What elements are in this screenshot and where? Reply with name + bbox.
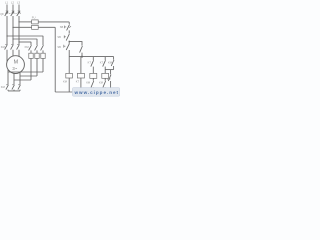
contactor KM3 star contact 2 xyxy=(12,85,15,90)
button SB3 xyxy=(57,44,69,50)
svg-text:L3: L3 xyxy=(17,0,20,4)
breaker QF pole 1 xyxy=(5,11,9,16)
wire control rail B xyxy=(38,26,55,28)
coil KT xyxy=(77,73,84,92)
coil KMD xyxy=(102,73,109,92)
svg-text:KM: KM xyxy=(86,81,90,85)
wire star bar xyxy=(8,90,20,91)
contactor KM2 delta contact 1 xyxy=(29,42,32,53)
wire delta branch 3 xyxy=(19,41,31,43)
svg-text:SB: SB xyxy=(60,25,64,29)
wire L1 drop xyxy=(6,5,8,12)
contactor KM3 star contact 1 xyxy=(6,85,8,90)
junction dot tap A xyxy=(18,21,19,22)
thermal relay FR heater 2 xyxy=(35,53,39,76)
svg-text:SB: SB xyxy=(57,35,61,39)
wire return drop xyxy=(54,27,56,92)
wire phase2 vertical xyxy=(12,16,14,44)
wire delta return 2 xyxy=(20,75,37,77)
wire segment SB3-bus xyxy=(68,50,70,73)
wire control rail A xyxy=(38,21,69,23)
contactor KM main contact 1 xyxy=(5,44,8,49)
contact KT branch4 xyxy=(100,57,106,74)
wire bottom return rail xyxy=(55,91,110,93)
wire L3 drop xyxy=(18,5,20,12)
coil KM xyxy=(66,73,73,92)
svg-text:KT: KT xyxy=(76,79,80,83)
button SB1 stop xyxy=(60,24,71,30)
svg-text:KT: KT xyxy=(88,61,92,65)
coil KMY xyxy=(90,73,97,92)
wire control bus xyxy=(69,56,113,58)
wire motor lead 3 xyxy=(18,50,20,57)
contactor KM main contact 2 xyxy=(11,44,14,49)
wire L2 drop xyxy=(12,5,14,12)
wire motor lead 2 xyxy=(12,50,14,57)
contactor KM3 star contact 3 xyxy=(18,85,21,90)
watermark www.cippe.net xyxy=(72,88,119,97)
wire control main drop xyxy=(68,22,70,24)
svg-text:KT: KT xyxy=(100,61,104,65)
junction dot branch node xyxy=(69,41,70,42)
svg-text:3~: 3~ xyxy=(12,66,17,71)
breaker QF pole 3 xyxy=(17,11,21,16)
svg-text:QF: QF xyxy=(0,12,4,16)
svg-text:KM: KM xyxy=(63,79,67,83)
contactor KM2 delta contact 3 xyxy=(41,36,44,53)
fuse FU2 xyxy=(32,25,39,29)
breaker QF mechanical link xyxy=(5,13,21,15)
svg-text:KM: KM xyxy=(99,81,103,85)
button SB2 start xyxy=(57,34,69,41)
junction dot tap B xyxy=(12,27,13,28)
svg-text:SB: SB xyxy=(57,45,61,49)
wire branch5 to coil4 xyxy=(105,69,113,71)
breaker QF pole 2 xyxy=(11,11,15,16)
svg-text:M: M xyxy=(14,59,19,65)
junction dot delta3 xyxy=(18,41,19,42)
junction dot selfhold-bus xyxy=(81,56,83,58)
wire segment SB2-node xyxy=(68,41,70,44)
fuse FU1 xyxy=(32,20,39,24)
wire motor bottom lead 1 xyxy=(7,69,9,84)
wire motor lead 1 xyxy=(6,50,8,63)
junction dot delta1 xyxy=(6,35,7,36)
wire phase3 vertical xyxy=(18,16,20,44)
wire segment SB1-SB2 xyxy=(68,30,70,33)
svg-text:L1: L1 xyxy=(5,0,8,4)
junction dot delta2 xyxy=(12,38,13,39)
wire selfhold branch top xyxy=(69,42,82,46)
contactor KM main contact 3 xyxy=(17,44,20,49)
contact KT branch3 xyxy=(88,57,94,74)
svg-text:L2: L2 xyxy=(11,0,14,4)
svg-text:FU: FU xyxy=(32,15,36,19)
motor M circle xyxy=(7,56,25,74)
wire motor bottom lead 3 xyxy=(19,72,21,84)
wire delta return 3 xyxy=(14,79,31,81)
wire branch2 drop xyxy=(80,57,82,74)
wire delta branch 2 xyxy=(13,38,37,40)
thermal relay FR heater 1 xyxy=(29,53,33,80)
contact FR normally closed xyxy=(107,70,111,92)
contact KM branch5 xyxy=(108,57,114,70)
wire motor bottom lead 2 xyxy=(13,73,15,84)
wire control rail A tap xyxy=(19,21,32,23)
thermal relay FR heater 3 xyxy=(41,53,45,72)
svg-text:KM: KM xyxy=(108,61,112,65)
wire control rail B tap xyxy=(13,26,32,28)
contact KM selfhold xyxy=(80,46,83,57)
wire delta return 1 xyxy=(8,71,43,73)
wire phase1 vertical xyxy=(6,16,8,44)
wire delta branch 1 xyxy=(7,35,43,37)
svg-text:www.cippe.net: www.cippe.net xyxy=(74,90,119,95)
contactor KM2 delta contact 2 xyxy=(35,39,38,53)
